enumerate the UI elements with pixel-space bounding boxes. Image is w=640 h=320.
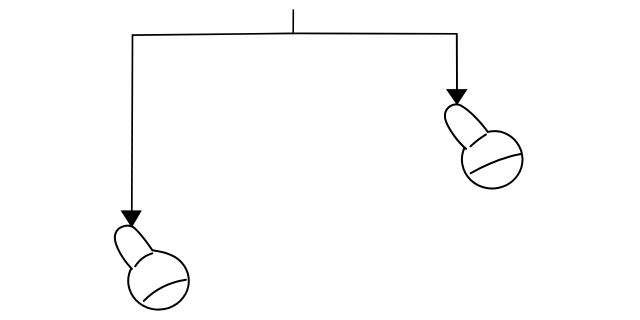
bulb 1 (left) (115, 226, 189, 310)
wire: horizontal bus (132, 33, 457, 35)
bulb 1 body circle (128, 250, 189, 309)
wire: top stub (292, 9, 294, 34)
bulb 2 neck (445, 104, 488, 148)
bulb 1 crease (135, 253, 152, 266)
bulb 2 body circle (462, 131, 523, 188)
wire: left drop (131, 34, 134, 211)
bulb 2 smile arc (471, 154, 522, 173)
bulb 2 crease (471, 135, 487, 147)
bulb 1 smile arc (144, 280, 186, 301)
wire: right drop (456, 33, 458, 90)
bulb 1 neck (115, 226, 153, 269)
arrowhead right (447, 90, 467, 105)
arrowhead left (122, 211, 142, 227)
bulb 2 (right) (445, 104, 523, 188)
